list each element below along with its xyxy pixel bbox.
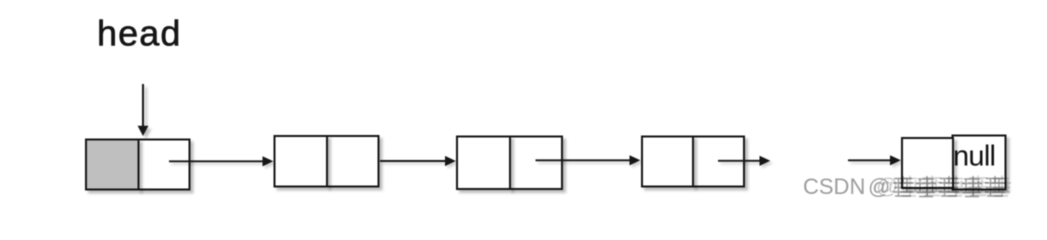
svg-text:CSDN: CSDN xyxy=(803,174,865,199)
svg-text:null: null xyxy=(953,141,996,173)
svg-text:head: head xyxy=(97,13,182,54)
svg-text:@: @ xyxy=(876,174,898,199)
